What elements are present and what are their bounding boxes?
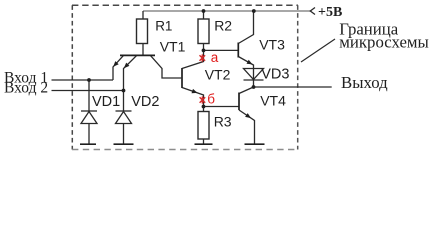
svg-text:VT1: VT1 (160, 38, 186, 54)
svg-text:R2: R2 (214, 17, 232, 33)
svg-text:б: б (207, 92, 215, 107)
svg-text:VT3: VT3 (259, 36, 285, 52)
svg-text:VD3: VD3 (261, 67, 289, 83)
svg-text:VT4: VT4 (260, 92, 286, 108)
svg-text:+5В: +5В (318, 5, 342, 20)
svg-text:а: а (211, 50, 219, 65)
svg-text:Вход 2: Вход 2 (4, 80, 48, 97)
svg-text:R3: R3 (214, 114, 232, 130)
svg-text:VT2: VT2 (205, 66, 231, 82)
svg-text:Выход: Выход (341, 73, 388, 92)
svg-text:микросхемы: микросхемы (339, 33, 429, 52)
svg-text:R1: R1 (155, 18, 172, 33)
svg-text:VD1: VD1 (92, 94, 120, 110)
svg-text:VD2: VD2 (131, 94, 159, 110)
